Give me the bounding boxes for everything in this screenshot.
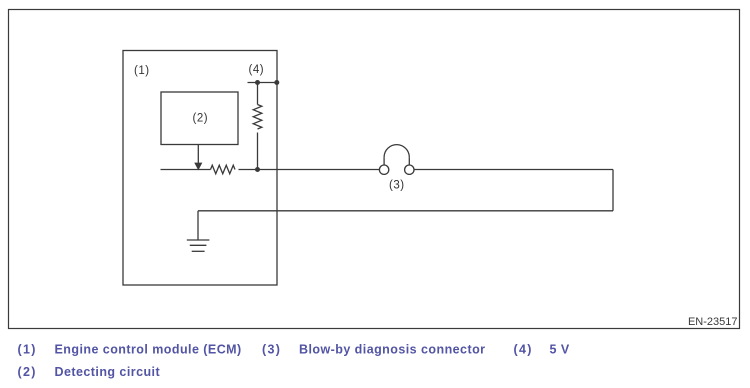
wire right vertical segment xyxy=(612,170,614,211)
svg-text:(3): (3) xyxy=(389,180,405,192)
wire main horizontal left segment xyxy=(161,169,211,171)
wire arrow lead from detecting circuit xyxy=(197,145,199,164)
svg-text:Detecting circuit: Detecting circuit xyxy=(55,365,161,379)
svg-text:(4): (4) xyxy=(514,343,533,357)
detecting circuit box (2) xyxy=(161,92,238,145)
wire 5V supply stub xyxy=(248,82,278,84)
wire bottom return segment xyxy=(198,210,613,212)
connector jumper stub right xyxy=(408,157,410,165)
wire pull-up resistor bottom lead xyxy=(257,133,259,170)
svg-text:Engine control module (ECM): Engine control module (ECM) xyxy=(55,343,242,357)
junction dot 5V node at ECM boundary xyxy=(274,80,279,85)
arrowhead into main node xyxy=(195,163,202,170)
ECM module box (1) xyxy=(123,51,277,286)
resistor pull-up (vertical) xyxy=(253,105,262,130)
legend row 1 xyxy=(18,343,570,357)
svg-text:(1): (1) xyxy=(134,65,150,77)
junction dot main node xyxy=(255,167,260,172)
wire pull-up resistor top lead xyxy=(257,83,259,105)
wire main horizontal right segment xyxy=(414,169,613,171)
connector jumper stub left xyxy=(383,157,385,165)
svg-text:(2): (2) xyxy=(18,365,37,379)
legend row 2 xyxy=(18,365,161,379)
blow-by diagnosis connector pin left xyxy=(379,165,388,174)
svg-text:(3): (3) xyxy=(262,343,281,357)
wire main horizontal middle segment xyxy=(239,169,380,171)
svg-text:5 V: 5 V xyxy=(550,343,570,357)
connector jumper arc xyxy=(384,145,409,158)
svg-text:(1): (1) xyxy=(18,343,37,357)
svg-text:EN-23517: EN-23517 xyxy=(688,316,738,328)
junction dot 5V node left xyxy=(255,80,260,85)
resistor series (horizontal) xyxy=(211,165,236,174)
ground symbol xyxy=(187,240,210,251)
svg-text:(2): (2) xyxy=(193,113,209,125)
blow-by diagnosis connector pin right xyxy=(405,165,414,174)
svg-text:Blow-by diagnosis connector: Blow-by diagnosis connector xyxy=(299,343,485,357)
wire down to ground xyxy=(197,211,199,240)
svg-text:(4): (4) xyxy=(249,64,265,76)
